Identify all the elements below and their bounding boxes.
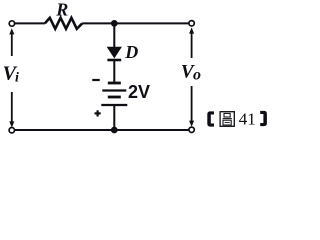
- battery B1 plate long (positive): [102, 89, 126, 91]
- caption bracket right 】: [260, 111, 267, 126]
- svg-text:D: D: [124, 42, 138, 62]
- caption character 圖 (figure): [220, 112, 234, 127]
- Vo annotation arrow up: [189, 27, 194, 58]
- wire diode cathode to battery: [113, 60, 115, 82]
- terminal bottom-left: [9, 128, 14, 133]
- diode D cathode bar: [107, 59, 121, 62]
- battery plus sign: [95, 110, 101, 116]
- svg-text:i: i: [15, 71, 19, 86]
- terminal top-right: [189, 21, 194, 26]
- svg-text:2V: 2V: [128, 82, 150, 102]
- wire bottom rail: [15, 129, 189, 131]
- caption bracket left 【: [207, 111, 214, 126]
- svg-text:41: 41: [239, 110, 256, 129]
- battery B1 plate short top (negative): [108, 82, 121, 85]
- svg-text:R: R: [55, 0, 68, 20]
- battery B1 plate short (negative): [108, 96, 121, 99]
- wire top rail left (terminal to resistor): [15, 22, 45, 24]
- junction dot top: [111, 20, 118, 27]
- battery B1 plate long bottom (positive): [101, 104, 127, 106]
- diode D triangle (anode): [107, 47, 121, 57]
- Vi annotation arrow down: [9, 92, 14, 128]
- terminal bottom-right: [189, 127, 194, 132]
- resistor R1 zigzag: [45, 18, 82, 29]
- svg-text:o: o: [193, 66, 201, 83]
- wire top rail right (resistor to right terminal): [82, 22, 189, 24]
- terminal top-left: [9, 21, 14, 26]
- wire battery to bottom junction: [113, 105, 115, 130]
- wire diode branch: junction to diode anode: [113, 23, 115, 47]
- Vo annotation arrow down: [189, 86, 194, 127]
- junction dot bottom: [111, 127, 118, 134]
- Vi annotation arrow up: [9, 28, 14, 56]
- battery minus sign: [92, 79, 99, 81]
